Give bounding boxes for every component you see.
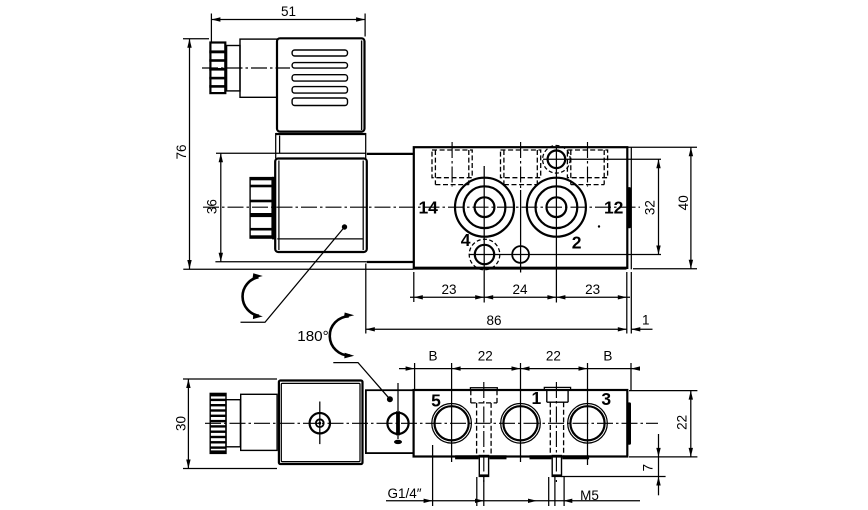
svg-text:7: 7 xyxy=(641,464,656,472)
svg-text:B: B xyxy=(428,349,437,364)
svg-text:4: 4 xyxy=(461,230,471,250)
svg-text:23: 23 xyxy=(585,282,600,297)
svg-text:G1/4″: G1/4″ xyxy=(387,486,421,501)
svg-text:22: 22 xyxy=(546,349,561,364)
svg-text:22: 22 xyxy=(478,349,493,364)
svg-text:51: 51 xyxy=(281,4,296,19)
svg-text:30: 30 xyxy=(174,416,189,431)
svg-text:14: 14 xyxy=(418,197,438,217)
svg-text:12: 12 xyxy=(604,197,624,217)
svg-text:B: B xyxy=(603,349,612,364)
svg-text:23: 23 xyxy=(441,282,456,297)
svg-text:1: 1 xyxy=(642,313,650,328)
svg-text:M5: M5 xyxy=(580,488,599,503)
svg-text:22: 22 xyxy=(675,415,690,430)
svg-text:1: 1 xyxy=(532,388,542,408)
svg-text:2: 2 xyxy=(572,232,582,252)
svg-text:24: 24 xyxy=(512,282,528,297)
svg-text:3: 3 xyxy=(601,389,611,409)
svg-text:86: 86 xyxy=(486,313,501,328)
svg-text:180°: 180° xyxy=(297,328,328,345)
svg-text:40: 40 xyxy=(676,195,691,210)
svg-text:32: 32 xyxy=(643,200,658,215)
svg-text:76: 76 xyxy=(174,144,189,159)
svg-text:5: 5 xyxy=(431,390,441,410)
svg-text:36: 36 xyxy=(205,199,220,214)
